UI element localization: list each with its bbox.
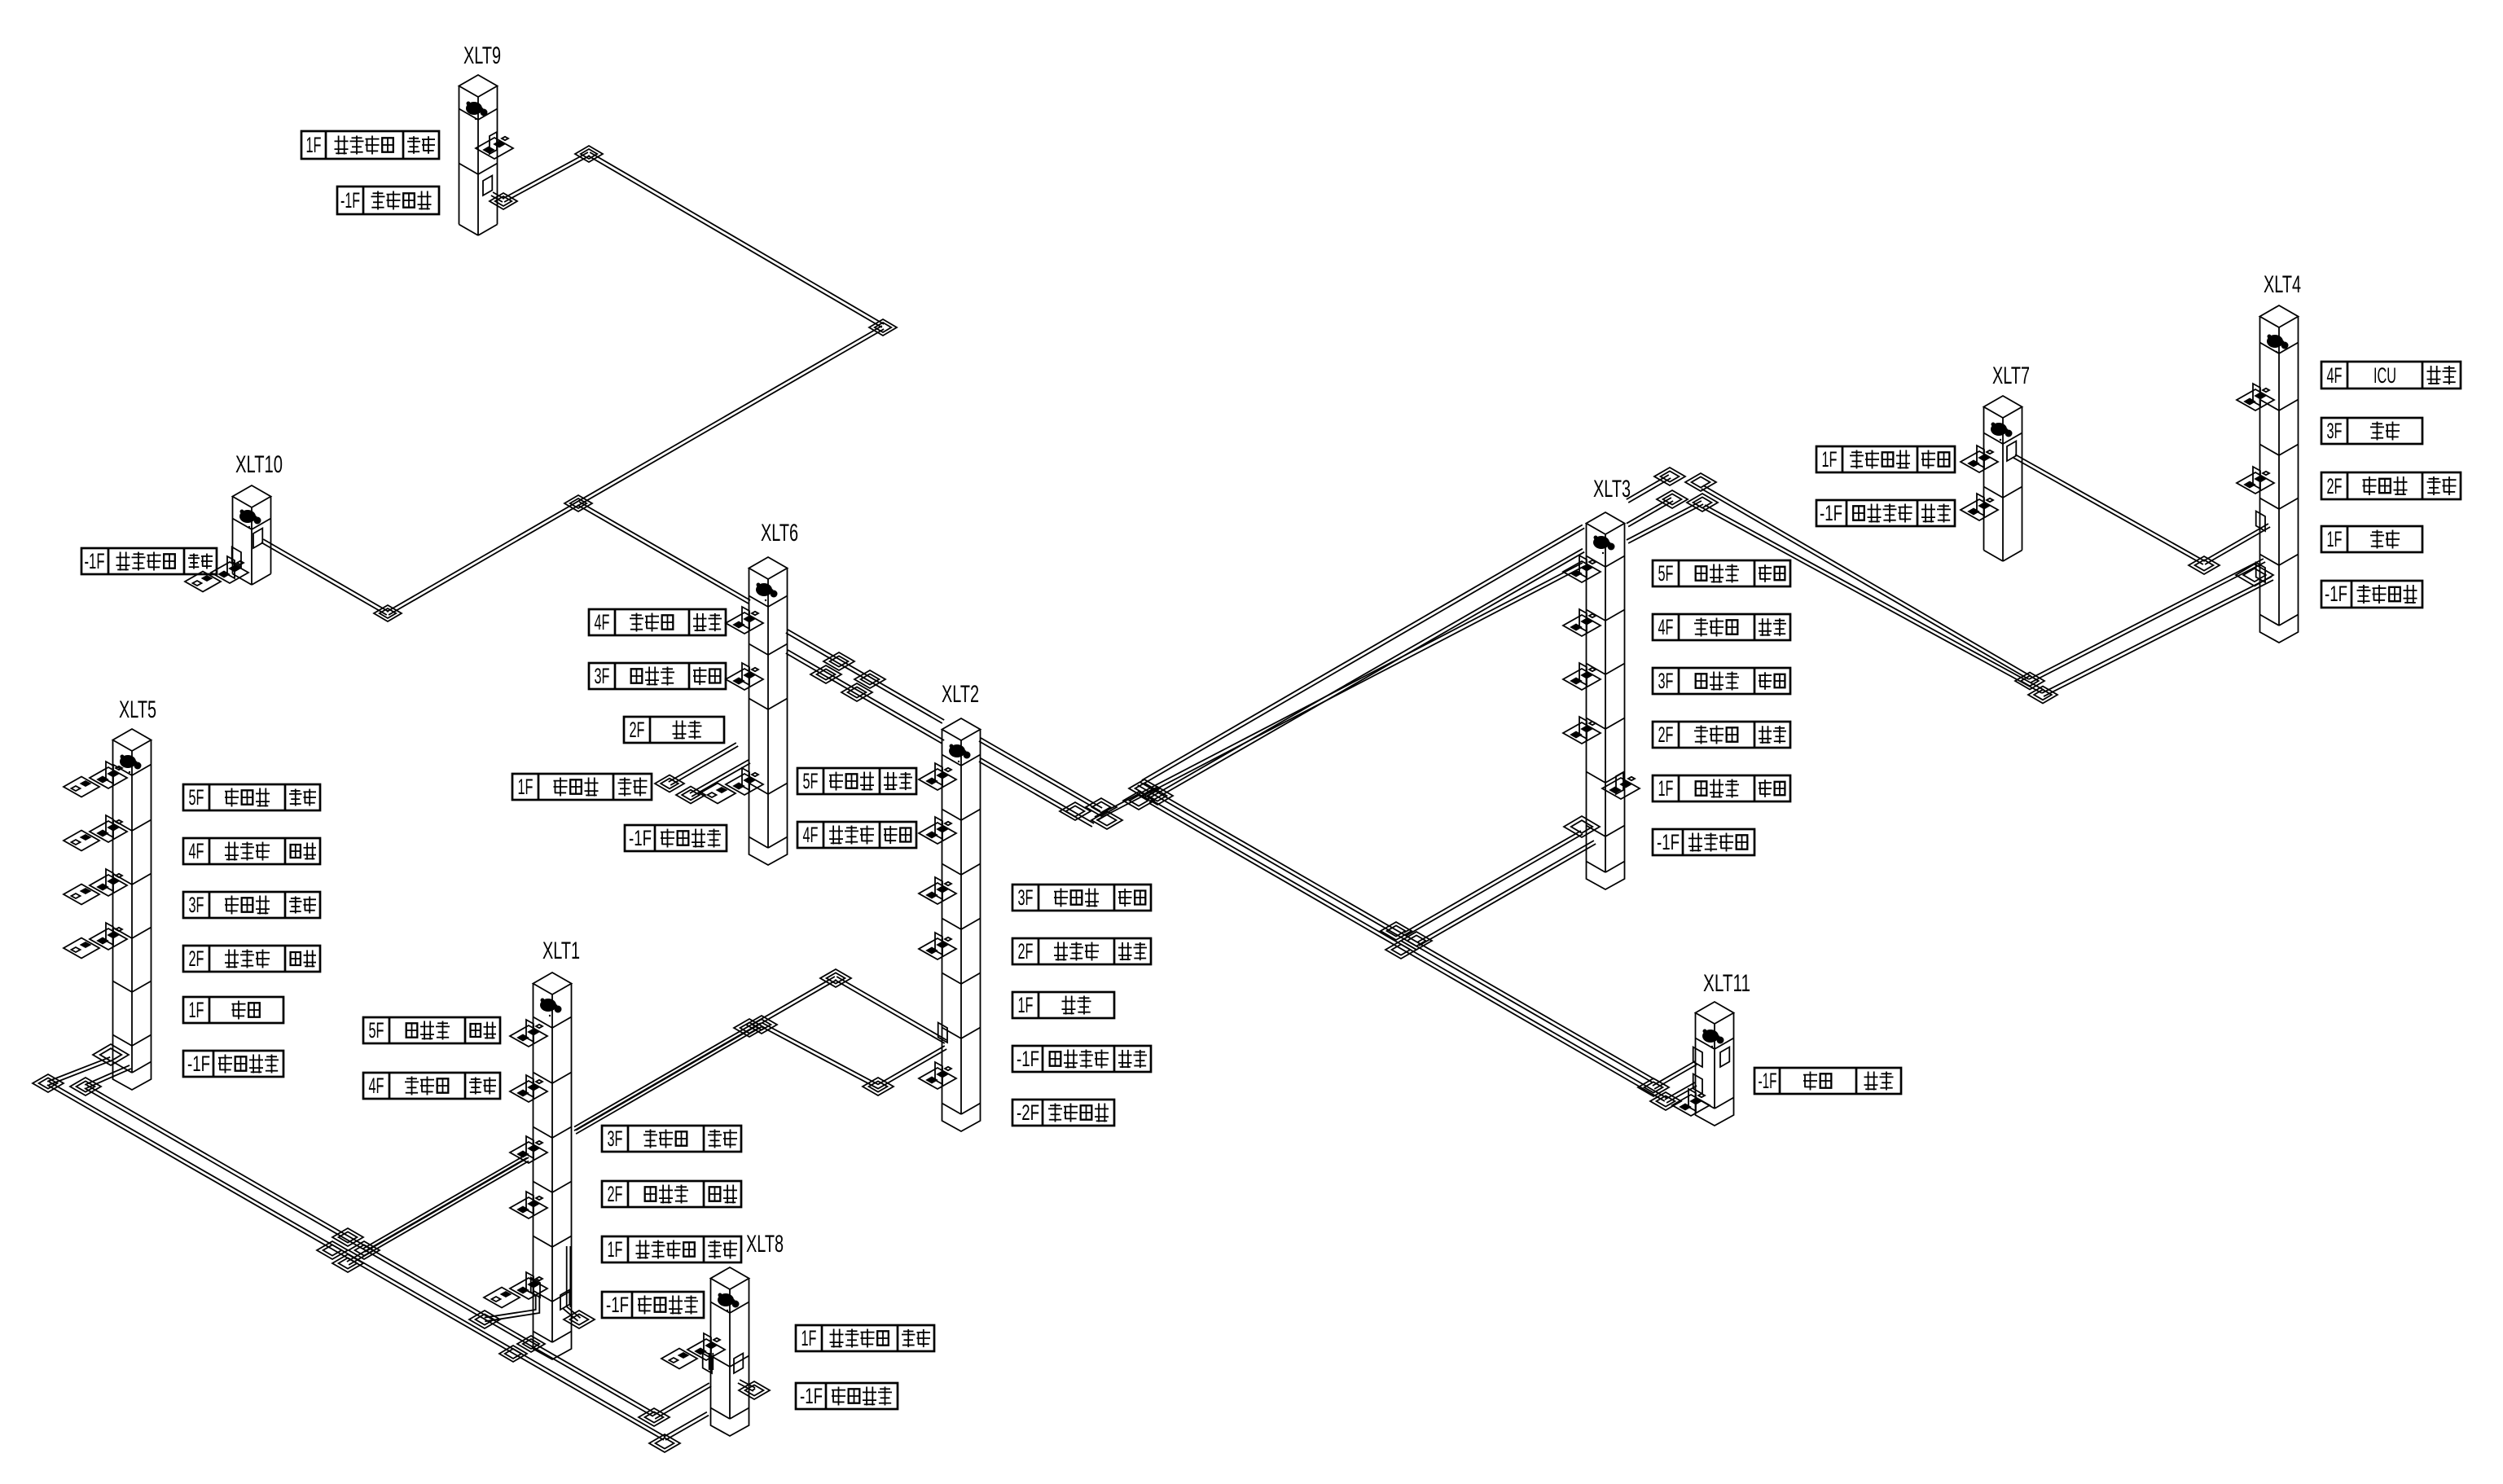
door XLT4 1F left	[2256, 511, 2265, 532]
device XLT7 -1F	[1977, 494, 1984, 516]
junction diamond A	[575, 146, 603, 162]
wire XLT7 to J4a	[2015, 454, 2205, 561]
svg-text:XLT5: XLT5	[119, 696, 156, 723]
label box XLT5 5F	[183, 784, 320, 810]
label box XLT1 -1F	[602, 1292, 704, 1318]
wire XLT1 right door to D3	[566, 1306, 581, 1318]
svg-text:1F: 1F	[189, 998, 204, 1022]
label box XLT1 4F	[363, 1073, 500, 1099]
svg-text:4F: 4F	[803, 823, 819, 847]
device XLT1 5F	[526, 1020, 534, 1042]
junction plate XLT5 base	[93, 1044, 129, 1065]
svg-text:XLT6: XLT6	[761, 520, 798, 547]
svg-text:3F: 3F	[595, 664, 610, 688]
blower XLT1	[540, 999, 556, 1012]
trunk X2 to XLT11 pair A	[1140, 782, 1654, 1079]
wire XLT2 to X2 pair 1	[981, 738, 1102, 808]
label box XLT5 3F	[183, 892, 320, 918]
label box XLT10 -1F	[81, 548, 217, 574]
svg-text:4F: 4F	[1658, 615, 1674, 639]
wire Da to XLT8 left door	[653, 1383, 709, 1416]
svg-text:-1F: -1F	[629, 826, 652, 850]
junction diamond D2	[469, 1311, 500, 1328]
svg-text:4F: 4F	[369, 1073, 384, 1098]
svg-text:-2F: -2F	[1017, 1100, 1039, 1125]
blower XLT6	[756, 583, 772, 596]
trunk XLT5 to Db lower	[49, 1082, 665, 1437]
label box XLT2 -2F	[1012, 1100, 1114, 1126]
svg-text:1F: 1F	[608, 1237, 623, 1262]
svg-text:-1F: -1F	[1820, 501, 1842, 525]
label box XLT4 3F	[2321, 418, 2422, 444]
svg-text:1F: 1F	[2327, 527, 2343, 551]
blower XLT11	[1702, 1030, 1719, 1043]
device XLT2 2F	[935, 933, 942, 955]
junction cluster X2 diamond 6	[1123, 792, 1154, 810]
svg-text:1F: 1F	[801, 1326, 817, 1350]
device XLT5 4F	[106, 815, 113, 837]
label box XLT6 4F	[589, 609, 726, 635]
blower XLT5	[120, 755, 136, 768]
junction diamond P2 mid	[517, 1336, 545, 1352]
blower XLT7	[1991, 423, 2007, 436]
svg-text:5F: 5F	[1658, 561, 1674, 586]
station tower XLT10 body	[232, 497, 234, 574]
door XLT7 right	[2007, 441, 2016, 462]
wire XLT4 1F to J4a	[2205, 527, 2270, 564]
svg-text:-1F: -1F	[800, 1384, 823, 1408]
svg-text:4F: 4F	[189, 839, 204, 863]
svg-text:1F: 1F	[1658, 776, 1674, 801]
junction diamond XLT6 1F a	[655, 775, 684, 792]
device XLT3 4F	[1579, 609, 1587, 631]
device XLT2 4F	[935, 817, 942, 839]
junction cluster X4 diamond top	[332, 1228, 363, 1246]
svg-text:XLT4: XLT4	[2264, 271, 2301, 298]
svg-text:2F: 2F	[1658, 722, 1674, 747]
svg-text:-1F: -1F	[85, 549, 105, 573]
label box XLT9 -1F	[337, 187, 439, 214]
device XLT6 3F	[742, 663, 749, 685]
device XLT5 2F	[106, 923, 113, 945]
svg-text:-1F: -1F	[187, 1052, 210, 1076]
junction diamond V1	[2015, 673, 2044, 690]
svg-text:-1F: -1F	[1657, 830, 1680, 854]
device XLT2 5F	[935, 763, 942, 785]
device XLT2 -1F	[935, 1062, 942, 1084]
wire XLT6 to XLT2 roof pair 1	[788, 630, 944, 720]
station tower XLT3 body	[1586, 524, 1587, 862]
svg-text:1F: 1F	[1822, 447, 1838, 472]
label box XLT2 3F	[1012, 885, 1151, 911]
junction diamond XLT9 base	[490, 193, 517, 209]
wire XLT9 base stub	[493, 192, 504, 199]
blower XLT4	[2267, 335, 2283, 348]
label box XLT7 -1F	[1816, 500, 1955, 526]
wire XLT6 1F stub b	[690, 760, 749, 793]
junction cluster X4 diamond right	[349, 1241, 380, 1259]
junction plate XLT3 base	[1564, 816, 1600, 837]
door XLT11 left 1F	[1693, 1047, 1702, 1068]
junction diamond D5a	[33, 1074, 64, 1092]
junction diamond DZ1	[820, 969, 851, 987]
label box XLT3 4F	[1653, 614, 1790, 640]
blower XLT10	[239, 510, 256, 523]
label box XLT3 -1F	[1653, 829, 1754, 855]
junction diamond Dc XLT8 base	[739, 1381, 770, 1399]
svg-text:2F: 2F	[1018, 939, 1034, 964]
station tower XLT7 body	[1983, 407, 1985, 551]
blower XLT2	[949, 744, 965, 757]
door XLT11 right	[1720, 1047, 1729, 1068]
wire Dc stub to XLT8 right door	[738, 1383, 753, 1391]
svg-text:3F: 3F	[1018, 885, 1034, 910]
label box XLT3 1F	[1653, 775, 1790, 801]
device XLT6 4F	[742, 607, 749, 629]
station tower XLT10 top cap	[233, 485, 271, 507]
station tower XLT11 body	[1695, 1013, 1697, 1098]
junction diamond Db	[649, 1434, 680, 1452]
trunk X2 to XLT11 pair B	[1151, 800, 1666, 1098]
station tower XLT7 top cap	[1984, 396, 2022, 418]
wire XLT1 left door to D2	[485, 1295, 539, 1321]
junction diamond Da	[639, 1408, 670, 1426]
junction cluster X2 diamond 3	[1091, 811, 1122, 829]
wire XLT1 right vertical	[569, 1246, 571, 1307]
label box XLT2 -1F	[1012, 1046, 1151, 1072]
junction cluster X1 diamond 4	[841, 683, 872, 701]
station tower XLT9 top cap	[459, 75, 498, 97]
trunk C1 to V pair 2	[1705, 505, 2044, 690]
device XLT3 3F	[1579, 663, 1587, 685]
wire C to XLT6 roof	[579, 502, 750, 600]
label box XLT1 1F	[602, 1236, 741, 1262]
device XLT9 1F	[490, 132, 497, 154]
device XLT1 2F	[526, 1192, 534, 1214]
station tower XLT8 body	[710, 1279, 712, 1408]
junction cluster C1 diamond 2	[1685, 473, 1716, 491]
svg-text:XLT3: XLT3	[1593, 476, 1631, 503]
wire XLT3 base to X3 pair 2	[1419, 844, 1596, 946]
svg-text:-1F: -1F	[340, 188, 360, 213]
svg-text:XLT8: XLT8	[746, 1231, 784, 1258]
station tower XLT2 body	[942, 730, 943, 1104]
device XLT4 3F	[2253, 384, 2260, 406]
junction diamond D9a	[734, 1019, 765, 1037]
junction cluster X1 diamond 3	[810, 665, 841, 683]
svg-text:-1F: -1F	[2325, 582, 2347, 606]
device XLT2 3F	[935, 877, 942, 899]
station tower XLT4 body	[2259, 317, 2261, 615]
svg-text:1F: 1F	[518, 775, 534, 799]
station tower XLT2 top cap	[942, 718, 981, 740]
label box XLT2 5F	[797, 768, 916, 794]
station tower XLT6 top cap	[749, 557, 788, 579]
door XLT9 base	[483, 176, 492, 196]
label box XLT3 3F	[1653, 668, 1790, 694]
svg-text:1F: 1F	[306, 133, 322, 157]
label box XLT6 -1F	[625, 825, 727, 851]
wire XLT9 to junction A	[503, 152, 588, 199]
station tower XLT5 top cap	[113, 729, 151, 751]
label box XLT6 2F	[624, 717, 724, 743]
trunk C1 to X2 pair 3	[1095, 563, 1583, 817]
svg-text:3F: 3F	[189, 893, 204, 917]
blower XLT3	[1593, 536, 1609, 549]
label box XLT3 5F	[1653, 560, 1790, 586]
label box XLT9 1F	[301, 131, 439, 159]
door XLT1 right -1F	[560, 1290, 569, 1311]
trunk V to XLT4 base pair 2	[2042, 577, 2272, 693]
wire Db to Dc	[664, 1412, 707, 1437]
junction cluster X2 diamond 4	[1129, 779, 1160, 797]
junction cluster C1 diamond 3	[1657, 490, 1688, 508]
label box XLT8 -1F	[796, 1383, 898, 1409]
junction cluster X1 diamond 2	[854, 670, 885, 688]
label box XLT3 2F	[1653, 722, 1790, 748]
svg-text:5F: 5F	[189, 785, 204, 810]
trunk V to XLT4 base pair 1	[2029, 559, 2264, 679]
junction cluster X2 diamond 2	[1086, 798, 1117, 816]
junction diamond D9b	[746, 1016, 777, 1034]
station tower XLT6 body	[749, 569, 750, 837]
device XLT5 5F	[106, 762, 113, 784]
station tower XLT5 body	[112, 740, 114, 1062]
device XLT1 4F	[526, 1075, 534, 1097]
wire XLT2 to X2 pair 2	[981, 758, 1094, 823]
door XLT8 left	[703, 1354, 712, 1374]
svg-text:XLT9: XLT9	[463, 42, 501, 69]
door XLT10 left	[232, 547, 241, 568]
label box XLT5 -1F	[183, 1051, 283, 1077]
door XLT11 left 2	[1693, 1074, 1702, 1095]
trunk XLT5 to Da upper	[86, 1085, 655, 1413]
trunk X4 to XLT2 -1F upper b	[837, 977, 946, 1040]
svg-text:XLT10: XLT10	[235, 451, 283, 478]
device XLT3 5F	[1579, 555, 1587, 577]
device XLT11 -1F	[1688, 1089, 1696, 1111]
label box XLT7 1F	[1816, 446, 1955, 472]
junction diamond XLT6 1F b	[676, 787, 705, 804]
device XLT10 -1F	[227, 556, 235, 578]
station tower XLT11 top cap	[1696, 1002, 1734, 1024]
wire XLT5 base stub b	[86, 1069, 131, 1088]
wire B to D via C	[389, 329, 884, 615]
trunk X4 to XLT2 -1F upper a	[363, 1154, 527, 1249]
label box XLT11 -1F	[1754, 1068, 1901, 1094]
device XLT1 1F	[526, 1272, 534, 1294]
svg-text:5F: 5F	[803, 769, 819, 793]
station tower XLT3 top cap	[1587, 512, 1625, 534]
svg-text:2F: 2F	[2327, 474, 2343, 498]
label box XLT2 1F	[1012, 992, 1114, 1018]
device XLT8 1F	[704, 1333, 711, 1355]
svg-text:XLT7: XLT7	[1992, 362, 2030, 389]
trunk X4 to XLT2 -1F lower a	[347, 1158, 527, 1262]
trunk C1 to X2 pair 2	[1148, 549, 1583, 799]
svg-text:-1F: -1F	[606, 1293, 629, 1317]
svg-text:1F: 1F	[1018, 993, 1034, 1017]
wire XLT6 1F stub a	[669, 743, 736, 782]
junction diamond C	[564, 495, 592, 511]
label box XLT6 1F	[512, 774, 652, 800]
junction cluster X3 diamond 3	[1385, 941, 1416, 959]
label box XLT4 1F	[2321, 526, 2422, 552]
blower XLT9	[466, 102, 482, 115]
device XLT7 1F	[1977, 446, 1984, 468]
device XLT6 1F	[742, 768, 749, 790]
wire XLT5 base stub a	[49, 1060, 112, 1085]
device XLT5 3F	[106, 869, 113, 891]
blower XLT8	[718, 1293, 734, 1306]
station tower XLT4 top cap	[2260, 305, 2299, 327]
junction cluster X1 diamond 1	[823, 652, 854, 670]
wire XLT11 door stub a	[1653, 1061, 1695, 1086]
svg-text:XLT11: XLT11	[1703, 970, 1750, 997]
wire XLT3 base to X3 pair 1	[1406, 834, 1583, 936]
junction plate XLT4 -1F	[2236, 564, 2273, 586]
station tower XLT8 top cap	[711, 1267, 749, 1289]
junction cluster C1 diamond 1	[1654, 468, 1685, 485]
junction cluster X3 diamond 2	[1401, 932, 1432, 950]
label box XLT4 4F	[2321, 362, 2461, 389]
label box XLT1 5F	[363, 1017, 500, 1043]
station tower XLT9 body	[459, 86, 460, 225]
junction cluster X4 diamond left	[317, 1241, 348, 1259]
junction diamond DZ2	[863, 1078, 894, 1095]
junction diamond D	[374, 605, 402, 621]
label box XLT4 -1F	[2321, 581, 2422, 608]
wire XLT11 door stub b	[1665, 1082, 1695, 1100]
label box XLT2 4F	[797, 822, 916, 848]
junction diamond B	[869, 319, 897, 336]
trunk X4 to XLT2 -1F lower b	[762, 1023, 945, 1084]
label box XLT6 3F	[589, 663, 726, 689]
label box XLT1 3F	[602, 1126, 741, 1152]
device XLT3 2F	[1579, 717, 1587, 739]
label box XLT5 2F	[183, 946, 320, 972]
label box XLT1 2F	[602, 1181, 741, 1207]
trunk C1 to X2 pair 1	[1142, 525, 1583, 780]
svg-text:XLT2: XLT2	[942, 681, 979, 708]
svg-text:3F: 3F	[608, 1126, 623, 1151]
svg-text:2F: 2F	[189, 946, 204, 971]
junction diamond XLT11 a	[1638, 1078, 1669, 1096]
wire A to B	[590, 152, 884, 324]
junction diamond P1 mid	[499, 1346, 527, 1362]
label box XLT5 1F	[183, 997, 283, 1023]
svg-text:ICU: ICU	[2373, 363, 2396, 388]
junction diamond V2	[2028, 687, 2057, 704]
junction cluster X2 diamond 1	[1060, 802, 1091, 820]
station tower XLT1 top cap	[534, 973, 572, 994]
device XLT1 3F	[526, 1136, 534, 1158]
svg-text:3F: 3F	[2327, 419, 2343, 443]
wire XLT10 to D	[263, 539, 389, 612]
door XLT4 -1F left	[2256, 563, 2265, 583]
svg-text:XLT1: XLT1	[542, 937, 580, 964]
label box XLT8 1F	[796, 1325, 934, 1351]
door XLT2 -1F	[938, 1023, 947, 1043]
label box XLT5 4F	[183, 838, 320, 864]
door XLT1 left -1F	[531, 1278, 540, 1298]
svg-text:2F: 2F	[630, 718, 645, 742]
junction diamond D5b	[70, 1078, 101, 1095]
svg-text:3F: 3F	[1658, 669, 1674, 693]
svg-text:-1F: -1F	[1017, 1047, 1039, 1071]
door XLT8 right	[734, 1354, 743, 1374]
label box XLT4 2F	[2321, 472, 2461, 499]
junction cluster X4 diamond bottom	[332, 1254, 363, 1272]
junction diamond D3	[564, 1311, 595, 1328]
svg-text:4F: 4F	[2327, 363, 2343, 388]
junction diamond J4a	[2189, 556, 2220, 574]
svg-text:-1F: -1F	[1759, 1069, 1777, 1093]
device XLT4 2F	[2253, 467, 2260, 489]
junction cluster X2 diamond 5	[1142, 787, 1173, 805]
wire XLT8 left door drop	[709, 1353, 710, 1370]
label box XLT2 2F	[1012, 938, 1151, 964]
junction cluster X3 diamond 1	[1381, 922, 1412, 940]
door XLT10 right	[253, 529, 262, 549]
station tower XLT1 body	[533, 984, 534, 1332]
junction diamond XLT11 b	[1650, 1092, 1681, 1110]
svg-text:2F: 2F	[608, 1182, 623, 1206]
svg-text:4F: 4F	[595, 610, 610, 634]
wire XLT6 to XLT2 roof pair 2	[788, 650, 944, 740]
trunk C1 to V pair 1	[1703, 485, 2031, 676]
svg-text:5F: 5F	[369, 1018, 384, 1043]
junction cluster C1 diamond 4	[1687, 494, 1718, 511]
device XLT3 1F	[1616, 772, 1623, 794]
